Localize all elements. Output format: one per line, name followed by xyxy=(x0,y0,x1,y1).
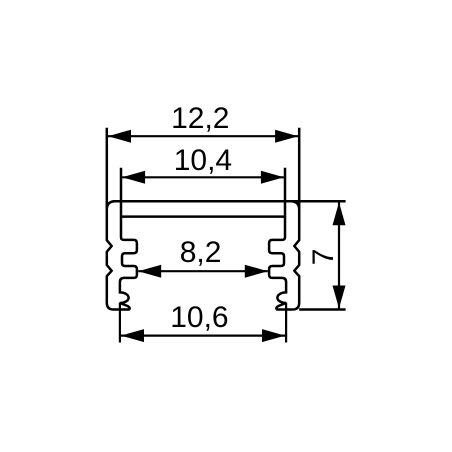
svg-text:10,4: 10,4 xyxy=(174,144,232,177)
dimension line 12,2 xyxy=(108,135,298,137)
profile outer left edge with grip chevrons, bottom-left corner arc and left foot bottom xyxy=(107,128,130,310)
arrowhead right 10,6 xyxy=(262,329,285,342)
arrowhead left 10,6 xyxy=(121,329,144,342)
dimension line 10,6 xyxy=(121,335,285,337)
arrowhead right 12,2 xyxy=(275,130,298,143)
profile inner shelf line xyxy=(121,215,285,218)
profile left inner wall: foot curl with barb, lower tab, upper tab, recess wall (doubles as 10,4 extension line) xyxy=(120,168,137,310)
extension line left 10,6 xyxy=(119,303,121,343)
svg-text:8,2: 8,2 xyxy=(180,236,222,269)
extension line right 10,6 xyxy=(285,303,287,343)
arrowhead left 12,2 xyxy=(108,130,131,143)
svg-text:12,2: 12,2 xyxy=(171,102,229,135)
bottom extension line of dimension 7 xyxy=(299,308,345,311)
arrowhead top 7 xyxy=(333,202,346,225)
arrowhead left 8,2 xyxy=(138,265,161,278)
arrowhead right 8,2 xyxy=(245,265,268,278)
profile top-left corner arc xyxy=(107,201,115,209)
dimension line 7 (vertical) xyxy=(338,202,340,308)
arrowhead left 10,4 xyxy=(122,171,145,184)
svg-text:7: 7 xyxy=(307,249,340,266)
profile right half (mirrored) xyxy=(269,128,299,310)
arrowhead bottom 7 xyxy=(333,286,346,309)
arrowhead right 10,4 xyxy=(261,171,284,184)
profile top edge, continuing right as top extension line of dimension 7 xyxy=(113,200,346,203)
svg-text:10,6: 10,6 xyxy=(170,301,228,334)
dimension line 10,4 xyxy=(122,176,284,178)
dimension line 8,2 xyxy=(138,270,268,272)
